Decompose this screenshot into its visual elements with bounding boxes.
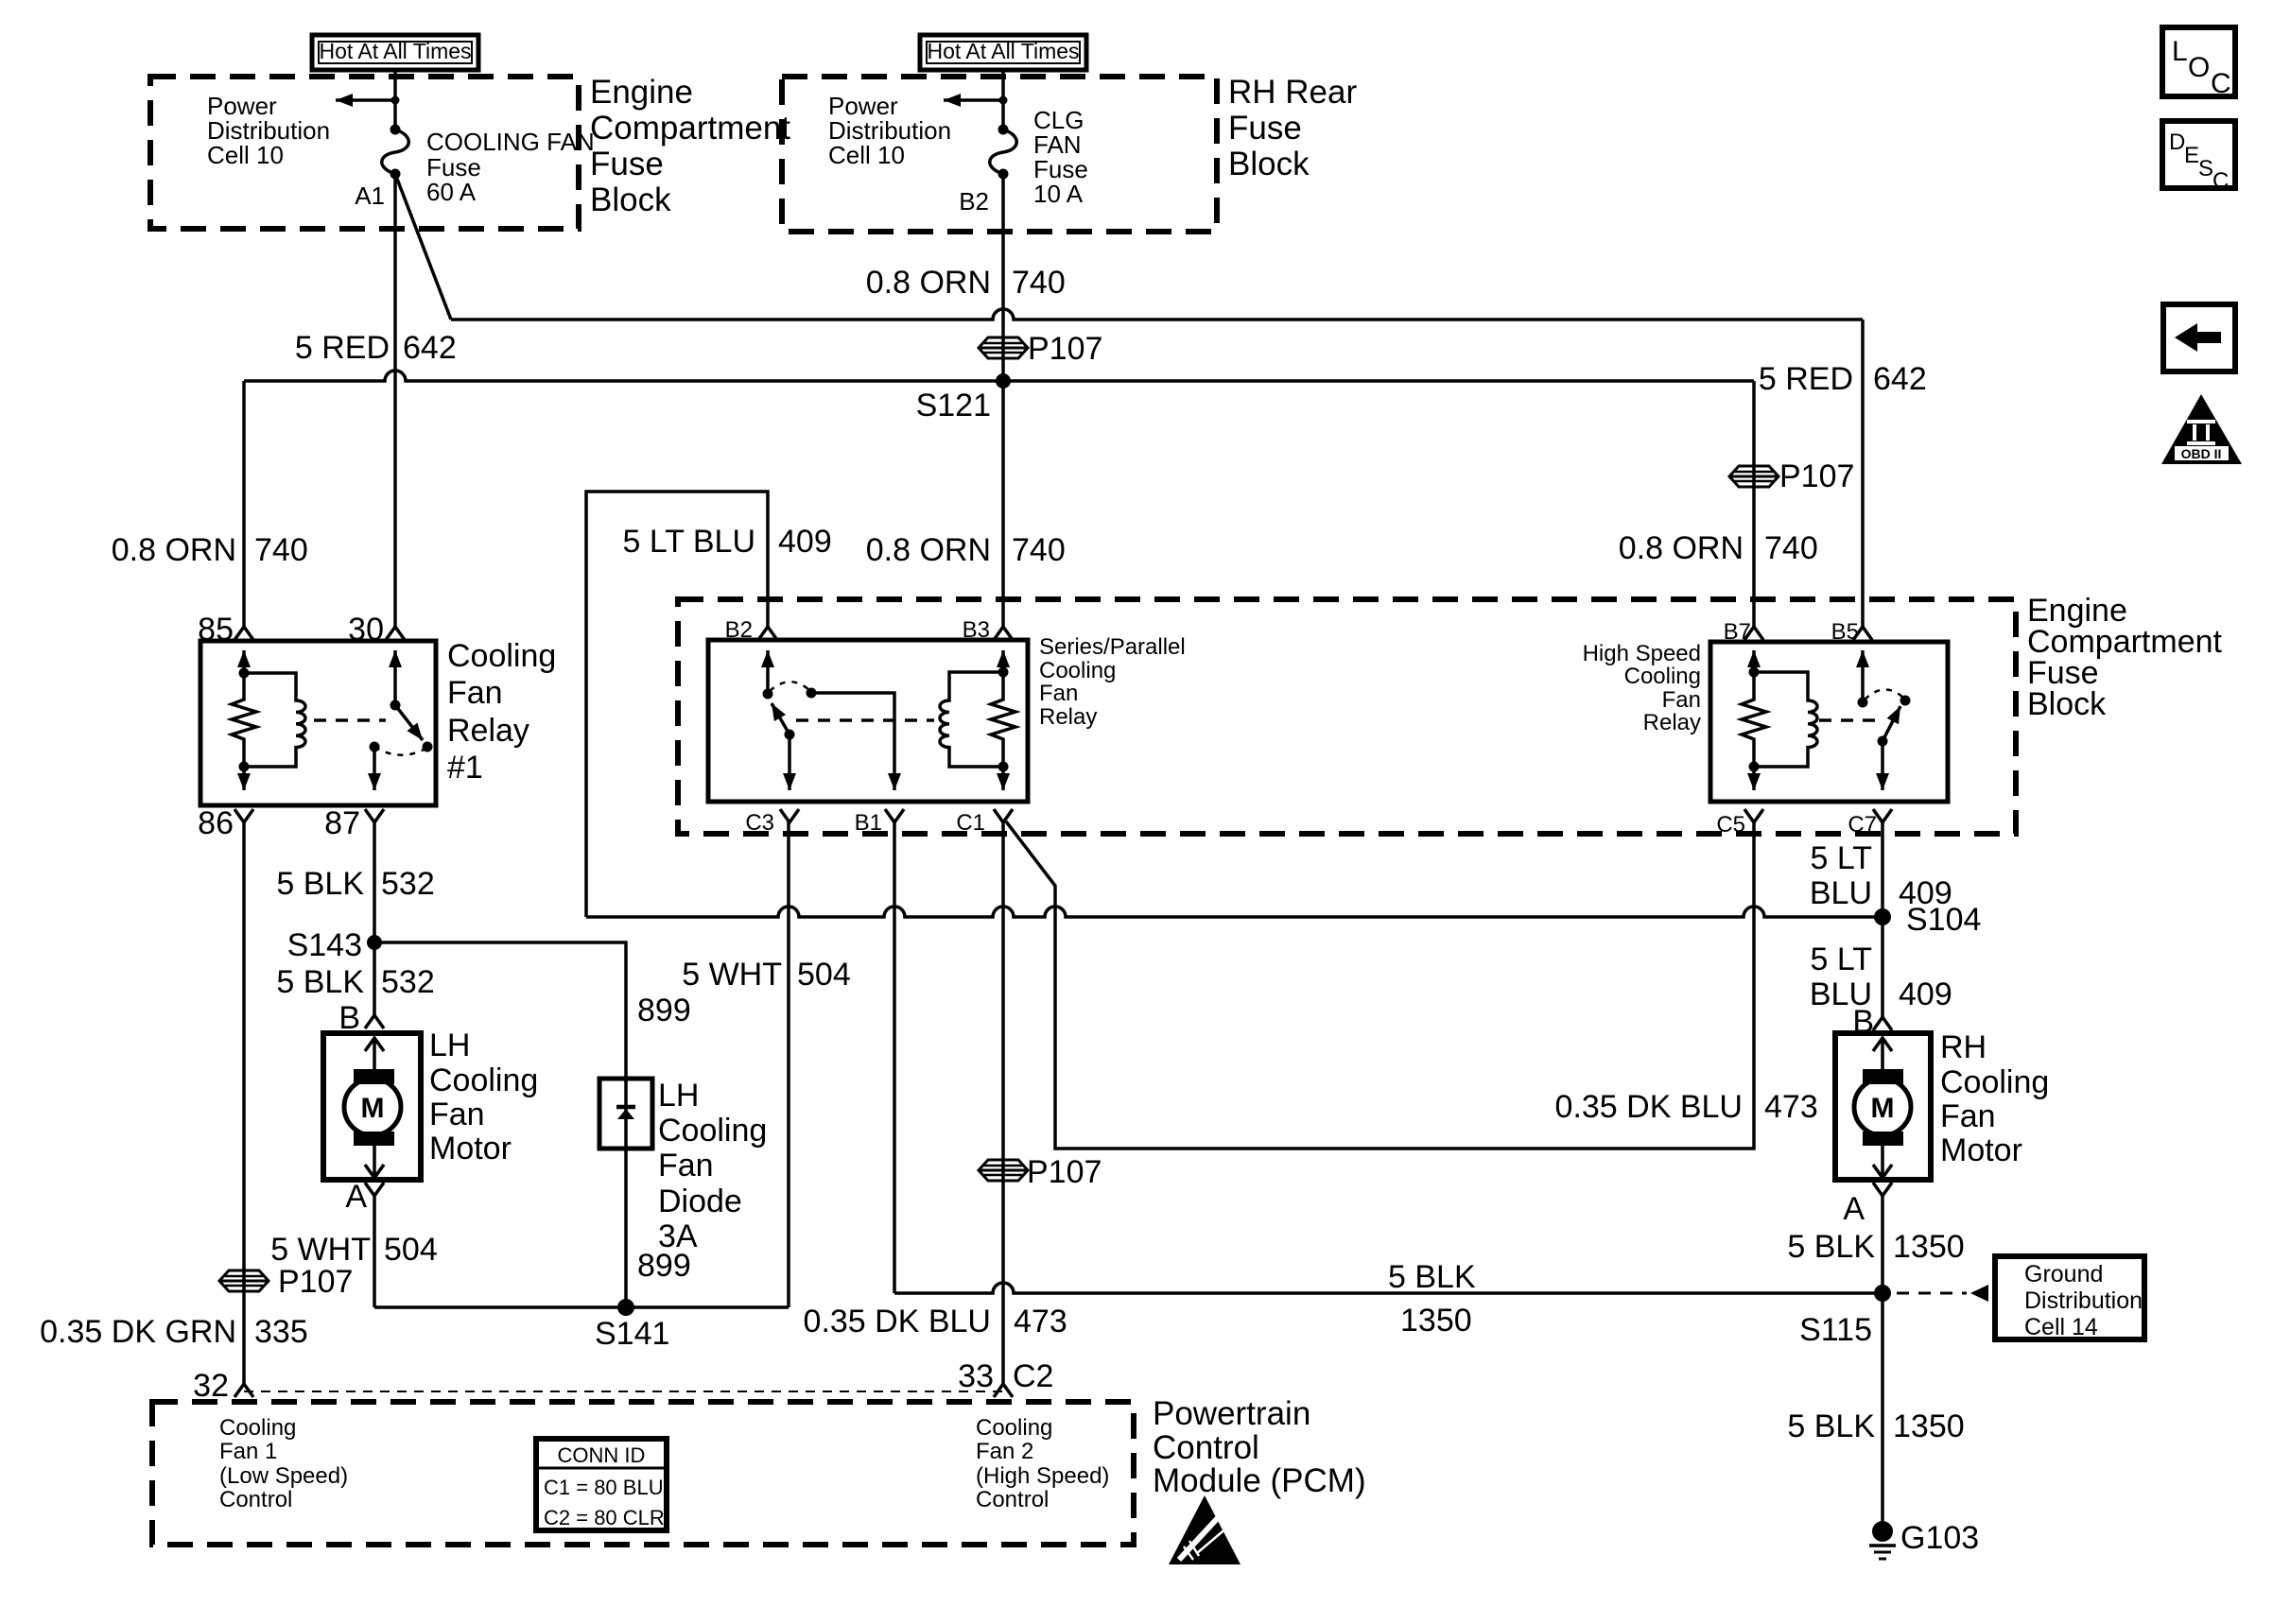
label 0.8 ORN 740 (right) bbox=[1619, 530, 1818, 566]
HS relay box bbox=[1710, 642, 1948, 802]
svg-text:1350: 1350 bbox=[1400, 1303, 1472, 1339]
svg-text:1350: 1350 bbox=[1893, 1408, 1965, 1444]
svg-text:Motor: Motor bbox=[429, 1131, 512, 1166]
wire 5 LT BLU 409 riser: B2 up, left, down bbox=[586, 492, 768, 917]
svg-text:5 BLK: 5 BLK bbox=[1388, 1259, 1476, 1295]
pin B2 connector bbox=[758, 627, 777, 640]
svg-text:M: M bbox=[1871, 1093, 1895, 1124]
svg-text:C7: C7 bbox=[1848, 812, 1877, 838]
wire diode to S141 bbox=[624, 1149, 628, 1307]
wire 0.35 DK BLU 473 from B1... 5 BLK 1350 from B1 down and right to S115 (hops C1 wire) bbox=[894, 821, 1883, 1293]
wire RH motor A down to S115 bbox=[1881, 1195, 1884, 1293]
S/P relay box bbox=[708, 640, 1028, 802]
connector P107 (left) bbox=[219, 1264, 353, 1300]
svg-text:S141: S141 bbox=[595, 1316, 669, 1352]
svg-text:Cell 10: Cell 10 bbox=[207, 141, 284, 169]
svg-text:642: 642 bbox=[403, 330, 457, 366]
splice S141 bbox=[595, 1299, 669, 1352]
svg-text:S143: S143 bbox=[287, 927, 362, 963]
label Power Distribution Cell 10 bbox=[207, 92, 330, 169]
svg-text:0.35 DK BLU: 0.35 DK BLU bbox=[1555, 1089, 1743, 1125]
S/P relay dashed actuation link bbox=[796, 718, 934, 722]
wire from Hot box 1 to fuse bbox=[393, 72, 397, 130]
svg-text:S121: S121 bbox=[916, 388, 991, 423]
Engine Compartment Fuse Block dashed box (relays) bbox=[678, 599, 2016, 834]
pin B3 connector bbox=[994, 627, 1013, 640]
pin A connector (LH motor) bbox=[365, 1183, 384, 1196]
label Power Distribution Cell 10 (2) bbox=[828, 92, 951, 169]
relay 1 resistor bbox=[232, 673, 256, 767]
HS relay resistor bbox=[1742, 672, 1766, 767]
svg-text:S104: S104 bbox=[1906, 902, 1981, 938]
Powertrain Control Module dashed box bbox=[152, 1402, 1134, 1545]
wire 5 RED diagonal from fuse A1 bbox=[395, 174, 451, 320]
svg-text:Hot At All Times: Hot At All Times bbox=[319, 39, 471, 63]
Hot At All Times box 2 bbox=[920, 35, 1086, 70]
S/P relay coil junction dots bbox=[998, 667, 1009, 678]
svg-text:A: A bbox=[345, 1179, 367, 1215]
svg-text:5 WHT: 5 WHT bbox=[270, 1232, 371, 1268]
label 33 C2 bbox=[958, 1358, 1053, 1394]
label Cooling Fan Relay #1 bbox=[447, 638, 556, 786]
svg-text:Distribution: Distribution bbox=[2024, 1287, 2143, 1314]
wire 0.8 ORN 740 drop to relay pin 85 bbox=[242, 381, 246, 627]
splice S115 bbox=[1799, 1285, 1891, 1348]
label 0.35 DK BLU 473 (PCM) bbox=[804, 1304, 1067, 1339]
svg-text:Cooling: Cooling bbox=[447, 638, 556, 674]
label Engine Compartment Fuse Block (right) bbox=[2027, 593, 2223, 722]
splice S143 bbox=[287, 927, 382, 963]
wire 5 RED 642 horizontal to right (hops ORN wire) bbox=[451, 309, 1863, 320]
LH Cooling Fan Diode box bbox=[599, 1079, 652, 1149]
pin C3 connector bbox=[780, 809, 799, 822]
svg-text:#1: #1 bbox=[447, 750, 483, 786]
svg-text:5 BLK: 5 BLK bbox=[276, 866, 364, 902]
svg-text:473: 473 bbox=[1014, 1304, 1067, 1339]
wire 5 LT BLU 409 from relay C7 to RH motor B bbox=[1881, 821, 1884, 1017]
svg-text:642: 642 bbox=[1873, 361, 1927, 397]
svg-text:Hot At All Times: Hot At All Times bbox=[927, 39, 1079, 63]
HS relay coil junction dots bbox=[1749, 667, 1760, 678]
S/P relay coil bbox=[940, 672, 1003, 767]
icon back-arrow box bbox=[2163, 304, 2235, 371]
svg-text:C2: C2 bbox=[1013, 1358, 1053, 1394]
svg-text:5 LT: 5 LT bbox=[1810, 942, 1872, 977]
label 5 LT BLU 409 (above S104) bbox=[1810, 840, 1952, 911]
ESD sensitive triangle bbox=[1169, 1495, 1241, 1564]
splice S121 bbox=[916, 373, 1011, 423]
svg-text:87: 87 bbox=[324, 805, 360, 841]
svg-text:LH: LH bbox=[658, 1078, 699, 1114]
wire S141 horizontal 5 WHT 504 bbox=[374, 1305, 789, 1309]
fuse COOLING FAN 60A (A1) bbox=[382, 125, 409, 180]
connector P107 (lower middle) bbox=[979, 1154, 1102, 1190]
wire 5 BLK 532 from relay 87 to LH motor B bbox=[373, 821, 376, 1015]
label 5 RED 642 (right) bbox=[1759, 361, 1927, 397]
svg-text:C3: C3 bbox=[745, 810, 774, 836]
svg-text:RH Rear: RH Rear bbox=[1228, 74, 1357, 111]
svg-text:Fan: Fan bbox=[1940, 1098, 1996, 1134]
svg-text:Block: Block bbox=[1228, 146, 1310, 182]
icon DESC box bbox=[2162, 121, 2235, 194]
wire 5 BLK 1350 from S115 to G103 bbox=[1881, 1293, 1884, 1524]
svg-text:10 A: 10 A bbox=[1033, 180, 1084, 208]
HS relay pin C7 arrow bbox=[1881, 741, 1884, 790]
relay 1 pin 85 arrow bbox=[242, 650, 246, 673]
svg-text:Motor: Motor bbox=[1940, 1132, 2022, 1168]
wire 5 WHT 504 from relay C3 down bbox=[787, 821, 790, 1307]
svg-text:E: E bbox=[2184, 143, 2199, 168]
relay 1 pin 30 arrow bbox=[393, 650, 397, 704]
label High Speed Cooling Fan Relay bbox=[1583, 641, 1701, 735]
svg-text:532: 532 bbox=[381, 964, 435, 1000]
label LH Cooling Fan Diode 3A bbox=[658, 1078, 767, 1254]
svg-text:P107: P107 bbox=[1028, 331, 1102, 367]
svg-text:Fan: Fan bbox=[1662, 687, 1701, 713]
svg-text:Cell 14: Cell 14 bbox=[2024, 1314, 2098, 1340]
splice S104 bbox=[1874, 902, 1981, 938]
pin C7 connector bbox=[1873, 809, 1892, 822]
relay 1 pin 86 arrow bbox=[242, 767, 246, 790]
svg-text:5 LT BLU: 5 LT BLU bbox=[623, 524, 755, 560]
connector P107 (right) bbox=[1729, 458, 1854, 494]
wire 0.35 DK GRN from relay 86 down to PCM 32 bbox=[242, 821, 246, 1384]
label 5 WHT 504 (motor A) bbox=[270, 1232, 438, 1268]
pin 85 connector bbox=[234, 627, 253, 640]
pin 32 connector (PCM) bbox=[234, 1384, 253, 1397]
Ground Distribution Cell 14 box bbox=[1995, 1256, 2144, 1340]
HS relay coil bbox=[1754, 672, 1817, 767]
svg-text:0.8 ORN: 0.8 ORN bbox=[866, 265, 991, 301]
wire S143 branch to diode bbox=[374, 942, 626, 1081]
pin 33 connector (PCM) bbox=[994, 1384, 1013, 1397]
svg-text:C2 = 80 CLR: C2 = 80 CLR bbox=[544, 1506, 665, 1529]
pin B connector (RH motor) bbox=[1873, 1017, 1892, 1030]
label 0.35 DK BLU 473 (C5 branch) bbox=[1555, 1089, 1818, 1125]
svg-text:740: 740 bbox=[254, 532, 308, 568]
label Series/Parallel Cooling Fan Relay bbox=[1039, 634, 1186, 730]
wire 0.8 ORN 740 drop to B7 bbox=[1752, 381, 1756, 627]
relay 1 switch bbox=[370, 700, 433, 755]
S/P relay pin B2 arrow bbox=[766, 650, 770, 694]
HS relay pin B7 arrow bbox=[1752, 650, 1756, 672]
svg-text:A: A bbox=[1843, 1191, 1865, 1227]
wire 0.8 ORN 740 horizontal from S121 (hops 5 RED wire) bbox=[244, 371, 1754, 381]
label Powertrain Control Module (PCM) bbox=[1153, 1395, 1366, 1499]
svg-text:C5: C5 bbox=[1716, 812, 1745, 838]
svg-text:Ground: Ground bbox=[2024, 1261, 2103, 1287]
svg-text:Relay: Relay bbox=[447, 713, 529, 749]
svg-text:Fan: Fan bbox=[1039, 681, 1078, 706]
arrow to Power Distribution bbox=[336, 96, 400, 105]
svg-text:504: 504 bbox=[797, 957, 851, 993]
svg-text:M: M bbox=[361, 1093, 385, 1124]
svg-text:Control: Control bbox=[976, 1487, 1049, 1512]
svg-text:Cooling: Cooling bbox=[1039, 658, 1116, 683]
svg-text:60 A: 60 A bbox=[426, 178, 477, 206]
wire 5 LT BLU 409 long horizontal to S104 (hops C3,B1,C1,473,C5 wires) bbox=[586, 907, 1883, 917]
svg-text:C1 = 80 BLU: C1 = 80 BLU bbox=[544, 1476, 664, 1499]
wire 0.35 DK BLU 473 from C1 straight down to PCM 33 bbox=[1001, 821, 1005, 1384]
ground G103 bbox=[1869, 1520, 1979, 1559]
svg-text:0.35 DK GRN: 0.35 DK GRN bbox=[40, 1314, 236, 1350]
pin 86 connector bbox=[234, 809, 253, 822]
svg-text:Fan 2: Fan 2 bbox=[976, 1439, 1033, 1464]
label 5 LT BLU 409 bbox=[623, 524, 832, 560]
HS relay switch bbox=[1858, 689, 1911, 746]
svg-text:740: 740 bbox=[1764, 530, 1818, 566]
svg-text:Compartment: Compartment bbox=[590, 110, 790, 147]
wire 0.35 DK BLU 473 branch from C1 to C5 bbox=[1006, 821, 1754, 1149]
svg-text:504: 504 bbox=[384, 1232, 438, 1268]
svg-text:Fan: Fan bbox=[429, 1097, 485, 1132]
svg-text:335: 335 bbox=[254, 1314, 308, 1350]
svg-text:B2: B2 bbox=[959, 187, 989, 216]
icon LOC box bbox=[2162, 27, 2235, 99]
svg-text:Cooling: Cooling bbox=[1624, 664, 1701, 689]
svg-text:32: 32 bbox=[193, 1368, 229, 1404]
S/P relay pin B1 arrow bbox=[893, 766, 896, 790]
label 5 RED 642 (left) bbox=[295, 330, 457, 366]
svg-text:OBD II: OBD II bbox=[2181, 446, 2222, 461]
label 0.35 DK GRN 335 bbox=[40, 1314, 308, 1350]
svg-text:Cooling: Cooling bbox=[658, 1113, 767, 1149]
label 5 BLK 1350 (lower right) bbox=[1787, 1408, 1964, 1444]
svg-text:(Low Speed): (Low Speed) bbox=[219, 1463, 348, 1489]
fuse CLG FAN 10A (B2) bbox=[990, 125, 1017, 180]
pin B1 connector bbox=[885, 809, 904, 822]
svg-text:C: C bbox=[2212, 168, 2229, 194]
label Engine Compartment Fuse Block bbox=[590, 74, 790, 218]
HS relay dashed actuation link bbox=[1819, 718, 1876, 722]
pin B7 connector bbox=[1744, 627, 1763, 640]
svg-text:A1: A1 bbox=[355, 181, 385, 210]
svg-text:532: 532 bbox=[381, 866, 435, 902]
pin A connector (RH motor) bbox=[1873, 1183, 1892, 1196]
svg-text:P107: P107 bbox=[278, 1264, 353, 1300]
dashed arrow to Ground Distribution bbox=[1897, 1285, 1988, 1302]
RH Cooling Fan Motor bbox=[1835, 1033, 1931, 1180]
relay 1 pin 87 arrow bbox=[373, 747, 376, 790]
wire LH motor A down bbox=[373, 1195, 376, 1307]
connector P107 (upper middle) bbox=[979, 331, 1102, 367]
svg-text:Block: Block bbox=[2027, 686, 2107, 722]
Hot At All Times box 1 bbox=[312, 35, 478, 70]
svg-text:Control: Control bbox=[1153, 1429, 1259, 1466]
svg-text:BLU: BLU bbox=[1810, 875, 1872, 911]
svg-text:C1: C1 bbox=[956, 810, 985, 836]
wire 5 RED 642 drop to B5 bbox=[1861, 320, 1865, 627]
label LH Cooling Fan Motor bbox=[429, 1028, 538, 1166]
svg-text:Fan: Fan bbox=[658, 1148, 714, 1183]
svg-text:Module (PCM): Module (PCM) bbox=[1153, 1462, 1366, 1499]
label Cooling Fan 2 (High Speed) Control bbox=[976, 1415, 1109, 1512]
svg-text:409: 409 bbox=[778, 524, 832, 560]
svg-text:B1: B1 bbox=[855, 810, 882, 836]
svg-text:5 RED: 5 RED bbox=[1759, 361, 1853, 397]
svg-text:1350: 1350 bbox=[1893, 1229, 1965, 1265]
svg-text:5 RED: 5 RED bbox=[295, 330, 390, 366]
pin B connector (LH motor) bbox=[365, 1015, 384, 1028]
S/P relay pin C1 arrow bbox=[1001, 767, 1005, 790]
svg-text:0.35 DK BLU: 0.35 DK BLU bbox=[804, 1304, 991, 1339]
svg-text:Relay: Relay bbox=[1039, 704, 1097, 730]
RH Rear Fuse Block dashed box bbox=[782, 77, 1217, 232]
svg-text:G103: G103 bbox=[1900, 1520, 1979, 1556]
relay 1 dashed actuation link bbox=[314, 718, 386, 722]
svg-text:473: 473 bbox=[1764, 1089, 1818, 1125]
svg-text:LH: LH bbox=[429, 1028, 470, 1063]
label 5 BLK 532 (lower) bbox=[276, 964, 434, 1000]
label 5 BLK 1350 (upper right) bbox=[1787, 1229, 1964, 1265]
svg-text:5 BLK: 5 BLK bbox=[276, 964, 364, 1000]
svg-text:High Speed: High Speed bbox=[1583, 641, 1701, 666]
svg-text:5 BLK: 5 BLK bbox=[1787, 1229, 1875, 1265]
svg-text:Diode: Diode bbox=[658, 1183, 742, 1219]
svg-text:CONN ID: CONN ID bbox=[558, 1443, 646, 1467]
svg-text:Fuse: Fuse bbox=[590, 146, 664, 182]
svg-text:0.8 ORN: 0.8 ORN bbox=[1619, 530, 1744, 566]
svg-text:O: O bbox=[2188, 52, 2210, 83]
svg-text:86: 86 bbox=[198, 805, 234, 841]
arrow to Power Distribution (2) bbox=[944, 96, 1008, 105]
svg-text:740: 740 bbox=[1012, 532, 1066, 568]
svg-text:P107: P107 bbox=[1779, 458, 1854, 494]
svg-text:0.8 ORN: 0.8 ORN bbox=[866, 532, 991, 568]
svg-text:Fan 1: Fan 1 bbox=[219, 1439, 277, 1464]
svg-text:Series/Parallel: Series/Parallel bbox=[1039, 634, 1186, 660]
pin C1 connector bbox=[994, 809, 1013, 822]
pin B5 connector bbox=[1853, 627, 1872, 640]
label 0.8 ORN 740 (left) bbox=[112, 532, 308, 568]
label CLG FAN Fuse 10 A bbox=[1033, 106, 1088, 208]
svg-text:Powertrain: Powertrain bbox=[1153, 1395, 1310, 1432]
S/P relay resistor bbox=[991, 672, 1015, 767]
svg-text:899: 899 bbox=[637, 993, 691, 1028]
label 5 LT BLU 409 (below S104) bbox=[1810, 942, 1952, 1012]
thin dashed PCM edge between pins 32 and 33 bbox=[244, 1391, 1003, 1392]
svg-text:C: C bbox=[2211, 68, 2231, 99]
svg-text:33: 33 bbox=[958, 1358, 994, 1394]
svg-text:5 LT: 5 LT bbox=[1810, 840, 1872, 876]
svg-text:Cooling: Cooling bbox=[1940, 1064, 2049, 1100]
svg-text:409: 409 bbox=[1899, 976, 1952, 1012]
svg-text:0.8 ORN: 0.8 ORN bbox=[112, 532, 236, 568]
label COOLING FAN Fuse 60 A bbox=[426, 128, 595, 206]
svg-text:L: L bbox=[2172, 36, 2188, 67]
svg-text:Cooling: Cooling bbox=[219, 1415, 296, 1441]
label 0.8 ORN 740 (above P107) bbox=[866, 265, 1066, 301]
pin C5 connector bbox=[1744, 809, 1763, 822]
svg-text:Cooling: Cooling bbox=[976, 1415, 1052, 1441]
label RH Rear Fuse Block bbox=[1228, 74, 1357, 182]
S/P relay wire from switch contact to B1 bbox=[811, 693, 894, 766]
relay 1 coil bbox=[244, 673, 305, 767]
Engine Compartment Fuse Block dashed box bbox=[150, 77, 579, 229]
S/P relay switch bbox=[763, 682, 817, 739]
svg-text:5 BLK: 5 BLK bbox=[1787, 1408, 1875, 1444]
svg-text:(High Speed): (High Speed) bbox=[976, 1463, 1109, 1489]
pin 87 connector bbox=[365, 809, 384, 822]
svg-text:5 WHT: 5 WHT bbox=[682, 957, 782, 993]
wire 5 RED 642 from fuse A1 down to relay pin 30 bbox=[393, 174, 397, 627]
svg-text:Cell 10: Cell 10 bbox=[828, 141, 905, 169]
svg-text:740: 740 bbox=[1012, 265, 1066, 301]
svg-text:Fuse: Fuse bbox=[1228, 110, 1302, 147]
svg-text:Control: Control bbox=[219, 1487, 292, 1512]
svg-text:Cooling: Cooling bbox=[429, 1063, 538, 1098]
CONN ID table bbox=[536, 1439, 667, 1530]
HS relay pin C5 arrow bbox=[1752, 767, 1756, 790]
wire from Hot box 2 to fuse bbox=[1001, 72, 1005, 130]
pin 30 connector bbox=[386, 627, 405, 640]
relay 1 coil junction dots bbox=[239, 668, 250, 679]
svg-text:899: 899 bbox=[637, 1248, 691, 1284]
svg-text:S: S bbox=[2198, 156, 2213, 181]
label 0.8 ORN 740 (below S121) bbox=[866, 532, 1066, 568]
LH Cooling Fan Motor bbox=[323, 1033, 421, 1180]
svg-text:D: D bbox=[2169, 130, 2185, 155]
svg-text:COOLING FAN: COOLING FAN bbox=[426, 128, 595, 156]
label 5 BLK 532 (upper) bbox=[276, 866, 434, 902]
svg-text:S115: S115 bbox=[1799, 1312, 1872, 1348]
svg-text:RH: RH bbox=[1940, 1029, 1987, 1065]
wire 0.8 ORN 740 from fuse B2 down to B3 bbox=[1001, 174, 1005, 627]
svg-text:Fan: Fan bbox=[447, 675, 503, 711]
relay 1 box bbox=[200, 641, 436, 805]
icon OBD II triangle bbox=[2161, 394, 2242, 464]
label RH Cooling Fan Motor bbox=[1940, 1029, 2049, 1168]
svg-text:Relay: Relay bbox=[1643, 710, 1701, 735]
svg-text:Block: Block bbox=[590, 181, 671, 218]
label Cooling Fan 1 (Low Speed) Control bbox=[219, 1415, 348, 1512]
svg-text:P107: P107 bbox=[1027, 1154, 1102, 1190]
S/P relay pin C3 arrow bbox=[788, 734, 791, 790]
S/P relay pin B3 arrow bbox=[1001, 650, 1005, 672]
svg-text:Engine: Engine bbox=[590, 74, 693, 111]
HS relay pin B5 arrow bbox=[1861, 650, 1865, 702]
label 5 WHT 504 (C3 wire) bbox=[682, 957, 851, 993]
